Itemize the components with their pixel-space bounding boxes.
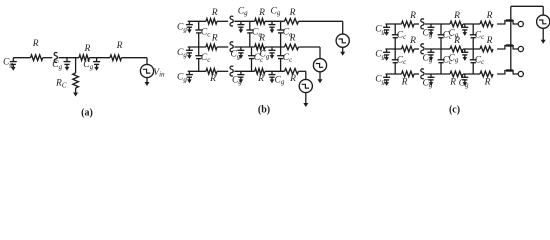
capacitor Cg (b) row1 node 1, with ground — [237, 21, 244, 33]
svg-text:R: R — [484, 78, 491, 88]
transistor (c) row2 — [497, 44, 518, 49]
break squiggle (c) row2 — [421, 44, 424, 54]
capacitor Cg (c) row2 node 1, with ground — [428, 49, 435, 61]
ground below RC (a) — [73, 88, 78, 97]
resistor R (c) row3 second — [450, 71, 463, 77]
svg-text:Cg: Cg — [238, 6, 248, 17]
wire — [425, 73, 450, 75]
resistor R (b) row3 first — [206, 69, 217, 75]
capacitor Cg (c) row3 node 1, with ground — [428, 74, 435, 86]
transistor (c) row1 — [497, 19, 518, 24]
svg-text:Vin: Vin — [153, 68, 165, 79]
terminal (c) row3 — [518, 71, 523, 76]
resistor R (c) row2 third — [480, 46, 493, 52]
break squiggle (a) — [54, 53, 57, 63]
wire — [217, 70, 228, 72]
break squiggle (c) row1 — [421, 19, 424, 29]
capacitor Cg (c) row1 input, with ground — [383, 24, 390, 36]
source Vin (a) — [140, 64, 153, 77]
capacitor Cg (b) row1 input, with ground — [186, 21, 193, 33]
svg-text:Cg: Cg — [177, 73, 187, 84]
wire — [299, 20, 343, 22]
ground below source (a) — [145, 78, 150, 87]
svg-text:Cg: Cg — [375, 50, 385, 61]
source (b) row1 — [336, 34, 349, 47]
capacitor Cg (b) row3 input, with ground — [186, 71, 193, 83]
wire — [43, 57, 52, 59]
wire — [217, 20, 228, 22]
resistor RC (a) vertical — [73, 73, 79, 88]
svg-text:R: R — [32, 39, 39, 49]
svg-text:R: R — [453, 36, 460, 46]
resistor R (c) row1 second — [450, 21, 463, 27]
svg-text:Cg: Cg — [52, 60, 62, 71]
capacitor Cc (b) column 3 rows 1-2 — [277, 21, 284, 47]
svg-text:Cg: Cg — [231, 50, 241, 61]
capacitor Cg (c) row2 node 2, with ground — [461, 49, 468, 61]
svg-text:Cg: Cg — [375, 75, 385, 86]
wire — [385, 48, 401, 50]
wire — [265, 20, 285, 22]
svg-text:Cc: Cc — [201, 53, 211, 64]
break squiggle (b) row2 — [230, 42, 233, 52]
resistor R (b) row2 second — [255, 44, 265, 50]
svg-text:Cg: Cg — [177, 48, 187, 59]
svg-text:Cc: Cc — [475, 55, 485, 66]
terminal (c) row2 — [518, 46, 523, 51]
svg-text:(b): (b) — [258, 105, 270, 116]
resistor R (b) row1 first — [206, 19, 217, 25]
svg-text:R: R — [409, 11, 416, 21]
ground below source (c) — [541, 28, 546, 44]
break squiggle (b) row3 — [230, 66, 233, 76]
capacitor Cg (b) row3 node 1, with ground — [237, 71, 244, 83]
capacitor Cc (b) column 2 rows 2-3 — [248, 47, 255, 71]
wire — [425, 48, 450, 50]
resistor R (c) row1 third — [480, 21, 493, 27]
wire — [342, 21, 344, 34]
capacitor Cc (c) column 3 rows 2-3 — [470, 49, 477, 74]
resistor R (b) row2 third — [285, 44, 299, 50]
capacitor Cc (b) column 2 rows 1-2 — [246, 21, 253, 47]
wire — [385, 23, 401, 25]
ground below source (b) row1 — [340, 47, 345, 55]
wire — [146, 58, 148, 65]
resistor R (b) row3 second — [255, 69, 265, 75]
wire — [75, 58, 77, 73]
capacitor Cg (b) row2 input, with ground — [186, 47, 193, 59]
wire — [13, 57, 30, 59]
capacitor Cg (a) node 1, with ground — [64, 58, 71, 71]
source (c) — [537, 15, 550, 28]
ground below source (b) row2 — [318, 72, 323, 83]
wire — [463, 73, 480, 75]
capacitor Cg (b) row2 node 2, with ground — [269, 47, 276, 59]
capacitor Cg (c) row2 input, with ground — [383, 49, 390, 61]
capacitor Cg (b) row1 node 2, with ground — [269, 21, 276, 33]
capacitor Cg (c) row3 node 2, with ground — [461, 74, 468, 86]
resistor R (a) first — [31, 55, 43, 61]
wire — [265, 46, 285, 48]
svg-text:Cg: Cg — [375, 25, 385, 36]
wire — [511, 5, 543, 7]
svg-text:R: R — [486, 11, 493, 21]
wire — [217, 46, 228, 48]
resistor R (b) row3 third — [285, 69, 299, 75]
capacitor Cc (b) column 1 rows 2-3 — [195, 47, 202, 71]
transistor (c) row3 — [497, 69, 518, 74]
wire — [188, 20, 206, 22]
svg-text:Cc: Cc — [397, 30, 407, 41]
break squiggle (c) row3 — [421, 69, 424, 79]
resistor R (a) third — [110, 55, 122, 61]
wire — [188, 46, 206, 48]
capacitor Cc (c) column 1 rows 1-2 — [392, 24, 399, 49]
svg-text:Cc: Cc — [283, 28, 293, 39]
capacitor Cc (b) column 1 rows 1-2 — [195, 21, 202, 47]
svg-text:R: R — [258, 8, 265, 18]
svg-text:R: R — [289, 74, 296, 84]
source (b) row3 — [299, 79, 312, 92]
wire — [299, 70, 306, 72]
capacitor Cc (c) column 2 rows 2-3 — [438, 49, 445, 74]
wire — [414, 73, 419, 75]
wire — [385, 73, 401, 75]
source (b) row2 — [313, 59, 326, 72]
terminal (c) row1 — [518, 21, 523, 26]
capacitor Cc (c) column 3 rows 1-2 — [470, 24, 477, 49]
svg-text:R: R — [289, 8, 296, 18]
resistor R (b) row2 first — [206, 44, 217, 50]
capacitor Cg (b) row3 node 2, with ground — [269, 71, 276, 83]
capacitor Cg (c) row1 node 1, with ground — [428, 24, 435, 36]
svg-text:Cg: Cg — [3, 58, 13, 69]
svg-text:Cg: Cg — [275, 75, 285, 86]
resistor R (b) row1 second — [255, 19, 265, 25]
svg-text:R: R — [116, 41, 123, 51]
wire — [305, 71, 307, 79]
svg-text:Cg: Cg — [177, 23, 187, 34]
svg-text:RC: RC — [55, 79, 67, 90]
wire — [90, 57, 111, 59]
svg-text:R: R — [211, 34, 218, 44]
wire — [265, 70, 285, 72]
resistor R (a) second — [79, 55, 90, 61]
wire — [463, 48, 480, 50]
svg-text:R: R — [211, 8, 218, 18]
wire — [542, 6, 544, 15]
svg-text:Cc: Cc — [397, 55, 407, 66]
wire — [425, 23, 450, 25]
wire — [234, 70, 254, 72]
capacitor Cg (a) input, with ground — [10, 58, 17, 71]
wire — [234, 20, 254, 22]
svg-text:Cg: Cg — [83, 60, 93, 71]
capacitor Cg (a) node 2, with ground — [93, 58, 100, 71]
wire — [59, 57, 79, 59]
wire — [414, 23, 419, 25]
svg-text:R: R — [449, 78, 456, 88]
wire — [463, 23, 480, 25]
resistor R (b) row1 third — [285, 19, 299, 25]
resistor R (c) row3 third — [480, 71, 493, 77]
svg-text:(a): (a) — [81, 107, 93, 118]
drain rail (c) — [510, 6, 512, 70]
svg-text:R: R — [486, 36, 493, 46]
svg-text:R: R — [401, 78, 408, 88]
svg-text:R: R — [257, 74, 264, 84]
capacitor Cc (c) column 2 rows 1-2 — [438, 24, 445, 49]
svg-text:Cc: Cc — [201, 28, 211, 39]
svg-text:Cc: Cc — [475, 30, 485, 41]
ground below source (b) row3 — [303, 93, 308, 107]
break squiggle (b) row1 — [230, 16, 233, 26]
resistor R (c) row1 first — [402, 21, 415, 27]
capacitor Cc (b) column 3 rows 2-3 — [277, 47, 284, 71]
wire — [122, 57, 148, 59]
svg-text:R: R — [83, 44, 90, 54]
capacitor Cg (c) row3 input, with ground — [383, 74, 390, 86]
wire — [188, 70, 206, 72]
capacitor Cg (b) row2 node 1, with ground — [237, 47, 244, 59]
svg-text:Cg: Cg — [271, 6, 281, 17]
wire — [414, 48, 419, 50]
svg-text:Cc: Cc — [283, 53, 293, 64]
svg-text:R: R — [453, 11, 460, 21]
svg-text:R: R — [409, 36, 416, 46]
svg-text:(c): (c) — [449, 105, 460, 116]
capacitor Cg (c) row1 node 2, with ground — [461, 24, 468, 36]
wire — [234, 46, 254, 48]
resistor R (c) row2 first — [402, 46, 415, 52]
wire — [299, 46, 321, 48]
capacitor Cc (c) column 1 rows 2-3 — [392, 49, 399, 74]
svg-text:R: R — [209, 74, 216, 84]
wire — [319, 47, 321, 59]
resistor R (c) row3 first — [402, 71, 415, 77]
resistor R (c) row2 second — [450, 46, 463, 52]
svg-text:Cc: Cc — [252, 28, 262, 39]
